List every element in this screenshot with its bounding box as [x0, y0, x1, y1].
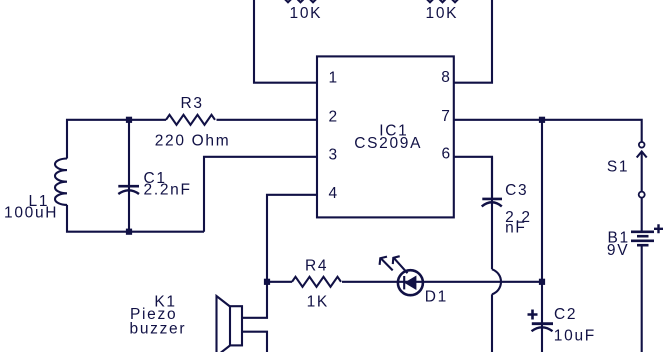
resistor R4: [292, 277, 341, 287]
wire: LED to C2 node: [423, 281, 542, 283]
resistor R1 (10K, top left, cut off): [282, 0, 320, 2]
svg-text:buzzer: buzzer: [130, 320, 187, 337]
op-amp IC1 CS209A body: [317, 56, 454, 217]
svg-text:220 Ohm: 220 Ohm: [155, 133, 231, 150]
node dot: LED wire / C2: [539, 279, 545, 285]
capacitor C2 (polarized): [528, 310, 554, 332]
svg-text:7: 7: [441, 108, 451, 125]
svg-text:6: 6: [442, 145, 452, 162]
wire: right top vertical to pin 8: [454, 0, 492, 83]
inductor L1: [55, 159, 67, 205]
svg-text:C3: C3: [505, 182, 528, 199]
svg-text:C2: C2: [554, 306, 577, 323]
wire: pin 4 down to R4 node: [267, 195, 317, 282]
svg-text:R4: R4: [305, 258, 328, 275]
svg-text:D1: D1: [425, 289, 448, 306]
LED D1: [380, 256, 423, 295]
node dot: R4 / buzzer: [264, 279, 270, 285]
capacitor C3: [482, 199, 502, 207]
wire hop over LED wire: [492, 269, 501, 294]
wire: C3 down to hop: [491, 157, 493, 269]
svg-text:3: 3: [329, 146, 339, 163]
wire: battery to bottom edge: [641, 246, 643, 352]
node dot: C1 bottom: [126, 229, 132, 235]
resistor R2 (10K, top right, cut off): [424, 0, 462, 2]
svg-text:8: 8: [441, 69, 451, 86]
svg-text:100uH: 100uH: [4, 204, 58, 221]
svg-text:1: 1: [329, 69, 339, 86]
svg-text:1K: 1K: [307, 294, 329, 311]
wire: L1 bottom to bottom rail: [67, 205, 204, 232]
wire: left top vertical to pin 1: [254, 0, 317, 83]
svg-text:R3: R3: [181, 95, 204, 112]
svg-text:9V: 9V: [607, 242, 629, 259]
wire: R4 to LED D1: [342, 281, 398, 283]
switch S1: [637, 142, 647, 198]
svg-text:10uF: 10uF: [554, 328, 596, 345]
wire: C1 branch: [128, 120, 130, 232]
capacitor C1: [118, 186, 139, 194]
wire: pin 3: [204, 157, 317, 232]
svg-text:CS209A: CS209A: [354, 135, 422, 152]
node dot: C1 top: [126, 117, 132, 123]
wire: pin 7 to switch: [454, 120, 642, 142]
svg-text:2: 2: [329, 108, 339, 125]
svg-text:4: 4: [329, 185, 339, 202]
wire: pin 6 to C3: [454, 157, 492, 198]
svg-text:nF: nF: [505, 220, 526, 237]
svg-text:10K: 10K: [290, 5, 323, 22]
wire: switch to battery: [641, 198, 643, 231]
wire: hop to bottom edge: [491, 294, 493, 352]
svg-text:10K: 10K: [426, 5, 459, 22]
wire: R3 left to L1 top: [67, 120, 166, 159]
node dot: pin7 / C2 branch: [539, 117, 545, 123]
wire: node down through C2 to bottom edge: [541, 120, 543, 352]
svg-text:2.2nF: 2.2nF: [144, 182, 192, 199]
battery B1: [631, 224, 663, 245]
wire: node to R4: [267, 281, 292, 283]
resistor R3: [166, 115, 215, 125]
wire: pin 2 to R3 right end: [217, 119, 318, 121]
piezo buzzer K1 symbol: [217, 282, 268, 352]
svg-text:S1: S1: [607, 158, 629, 175]
